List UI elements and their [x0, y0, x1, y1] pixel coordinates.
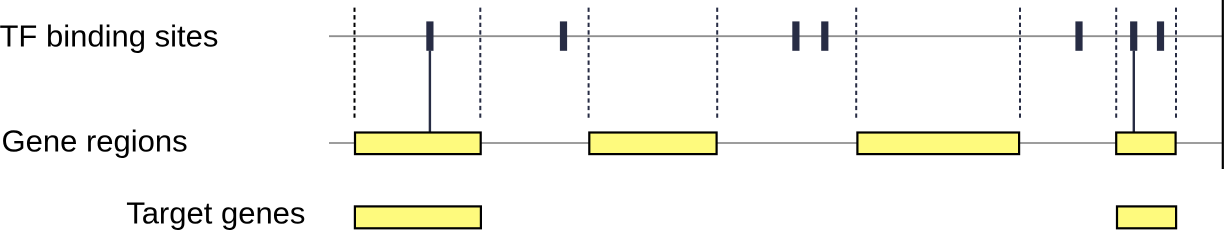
TF binding site marker 4	[821, 21, 828, 50]
TF binding site marker 6	[1130, 21, 1137, 50]
wire: TF axis line	[329, 35, 1222, 37]
dashed boundary 7	[1115, 8, 1117, 121]
gene region box 2	[589, 133, 716, 155]
svg-text:Target genes: Target genes	[126, 195, 305, 230]
TF binding site marker 7	[1157, 21, 1164, 50]
wire: gene axis line	[329, 142, 1222, 144]
gene region box 4	[1116, 133, 1175, 155]
border: right vertical line	[1222, 0, 1224, 169]
TF binding site marker 2	[560, 21, 567, 50]
TF binding site marker 1	[426, 21, 433, 50]
gene region box 1	[355, 133, 481, 155]
dashed boundary 1 (black)	[354, 8, 356, 121]
dashed boundary 3	[588, 8, 590, 121]
connector wire: marker 6 to gene region 4	[1133, 51, 1135, 132]
dashed boundary 8	[1175, 8, 1177, 121]
TF binding site marker 5	[1075, 21, 1082, 50]
svg-text:TF binding sites: TF binding sites	[0, 19, 218, 54]
target gene box 1	[355, 206, 481, 228]
TF binding site marker 3	[792, 21, 799, 50]
dashed boundary 5	[855, 8, 857, 121]
dashed boundary 4	[716, 8, 718, 121]
gene region box 3	[857, 133, 1019, 155]
target gene box 2	[1117, 206, 1176, 228]
svg-text:Gene regions: Gene regions	[2, 124, 188, 159]
connector wire: marker 1 to gene region 1	[429, 51, 431, 132]
dashed boundary 2	[479, 8, 481, 121]
dashed boundary 6	[1019, 8, 1021, 121]
